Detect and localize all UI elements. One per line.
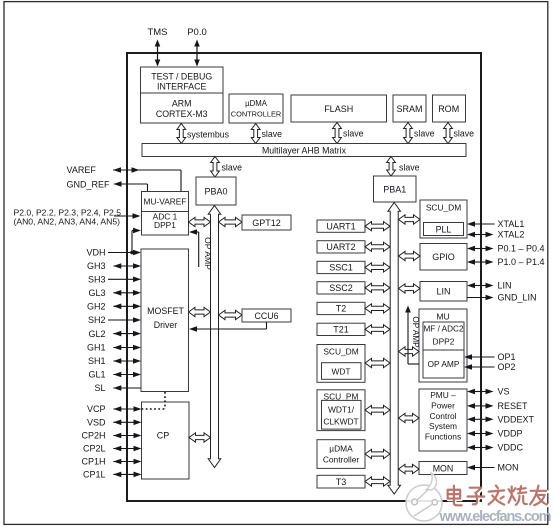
wire SH1 xyxy=(113,358,141,364)
svg-text:systembus: systembus xyxy=(187,130,230,140)
svg-text:WDT: WDT xyxy=(331,366,350,376)
wire VSD xyxy=(113,420,141,426)
svg-text:PLL: PLL xyxy=(436,224,452,234)
svg-text:Control: Control xyxy=(430,411,457,421)
svg-text:FLASH: FLASH xyxy=(324,104,353,114)
wire GH1 xyxy=(113,345,141,351)
block LIN xyxy=(420,282,467,302)
svg-text:ROM: ROM xyxy=(438,104,459,114)
block FLASH xyxy=(291,95,387,122)
svg-text:Driver: Driver xyxy=(154,320,178,330)
block T3 xyxy=(317,475,365,488)
bus systembus arrow xyxy=(177,124,230,144)
wire XTAL2 xyxy=(467,232,494,238)
bus PBA1 slave arrow xyxy=(387,157,420,177)
block SRAM xyxy=(393,95,426,122)
bus right peripheral bus xyxy=(388,203,401,495)
svg-text:SCU_DM: SCU_DM xyxy=(323,347,358,357)
svg-text:SH1: SH1 xyxy=(88,356,106,366)
svg-text:SL: SL xyxy=(94,383,105,393)
svg-text:GH3: GH3 xyxy=(87,261,106,271)
bus left peripheral bus xyxy=(208,206,221,468)
wire P0.0 arrow xyxy=(194,40,200,67)
svg-text:TMS: TMS xyxy=(147,27,167,38)
svg-text:MU-VAREF: MU-VAREF xyxy=(144,197,187,207)
svg-text:CP1L: CP1L xyxy=(83,470,106,480)
svg-text:GPIO: GPIO xyxy=(432,252,455,262)
bus right bus to MON xyxy=(399,464,420,473)
svg-text:CP2L: CP2L xyxy=(83,444,106,454)
wire CP2H xyxy=(113,433,141,439)
svg-text:Controller: Controller xyxy=(323,455,360,465)
wire RESET xyxy=(467,403,494,409)
wire GL3 xyxy=(113,290,141,296)
svg-text:WDT1/: WDT1/ xyxy=(328,404,355,414)
svg-text:Power: Power xyxy=(431,401,455,411)
bus T2 to right bus xyxy=(365,304,390,313)
svg-text:LIN: LIN xyxy=(498,281,512,291)
block TEST / DEBUG INTERFACE xyxy=(141,67,224,93)
block MU MF ADC2 DPP2 OP AMP xyxy=(419,309,467,382)
svg-text:µDMA: µDMA xyxy=(329,444,353,454)
svg-text:P0.1 – P0.4: P0.1 – P0.4 xyxy=(498,244,545,254)
wire GL1 xyxy=(113,372,141,378)
svg-text:CP2H: CP2H xyxy=(81,431,105,441)
wire SH3 xyxy=(108,277,141,283)
block SCU_DM PLL xyxy=(420,200,467,238)
svg-text:XTAL2: XTAL2 xyxy=(498,230,525,240)
bus SSC1 to right bus xyxy=(365,263,390,272)
svg-text:MF / ADC2: MF / ADC2 xyxy=(423,325,463,334)
block T2 xyxy=(317,302,365,314)
bus SSC2 to right bus xyxy=(365,283,390,292)
bus left bus to GPT12 xyxy=(219,217,243,226)
block CCU6 xyxy=(242,309,291,322)
wire VDH xyxy=(108,250,141,256)
svg-text:T3: T3 xyxy=(336,477,347,487)
svg-text:www.elecfans.com: www.elecfans.com xyxy=(439,509,552,525)
svg-text:VS: VS xyxy=(498,387,510,397)
svg-text:OP2: OP2 xyxy=(498,362,516,372)
wire VDDP xyxy=(467,431,494,437)
bus left bus to CCU6 xyxy=(219,310,243,319)
svg-text:VDDP: VDDP xyxy=(498,429,523,439)
bus right bus to LIN xyxy=(399,284,421,293)
bus right bus to PMU xyxy=(399,413,420,422)
svg-text:GND_REF: GND_REF xyxy=(67,180,111,190)
svg-text:VDDC: VDDC xyxy=(498,443,524,453)
wire GL2 xyxy=(113,331,141,337)
wire GH3 xyxy=(113,263,141,269)
block GPT12 xyxy=(242,215,291,230)
svg-text:SCU_DM: SCU_DM xyxy=(426,203,461,213)
wire OP AMP stub at ADC 1 xyxy=(189,229,199,267)
svg-text:MON: MON xyxy=(433,463,454,473)
block PBA0 xyxy=(196,177,236,205)
wire LIN xyxy=(467,283,494,289)
svg-text:T21: T21 xyxy=(333,325,349,335)
block UART1 xyxy=(317,220,365,232)
bus right bus to SCU_DM PLL xyxy=(399,215,421,224)
wire VDH junction to ADC 1 xyxy=(130,228,141,255)
wire P1.0-P1.4 xyxy=(467,259,494,265)
svg-text:CORTEX-M3: CORTEX-M3 xyxy=(156,109,208,119)
block SSC2 xyxy=(317,282,365,294)
svg-text:ARM: ARM xyxy=(172,99,192,109)
svg-text:GH1: GH1 xyxy=(87,343,106,353)
wire TMS arrow xyxy=(155,40,161,67)
svg-text:GL2: GL2 xyxy=(88,329,105,339)
block ADC 1 DPP1 xyxy=(142,212,189,236)
wire OP1 xyxy=(464,354,495,360)
wire VCP xyxy=(113,406,141,412)
svg-text:PBA0: PBA0 xyxy=(204,187,227,197)
svg-text:Functions: Functions xyxy=(425,432,461,442)
svg-text:CONTROLLER: CONTROLLER xyxy=(231,110,282,119)
wire GND_REF xyxy=(114,181,148,191)
svg-text:UART2: UART2 xyxy=(326,242,355,252)
wire CCU6 to MOSFET Driver xyxy=(189,322,267,332)
svg-text:slave: slave xyxy=(399,163,420,173)
block MOSFET Driver xyxy=(141,249,189,392)
wire VS xyxy=(467,389,494,395)
block T21 xyxy=(317,323,365,335)
wire CP2L xyxy=(113,446,141,452)
bus SCU_PM to right bus xyxy=(365,405,390,414)
svg-text:CP1H: CP1H xyxy=(81,457,105,467)
svg-text:SRAM: SRAM xyxy=(396,104,422,114)
svg-text:Multilayer AHB Matrix: Multilayer AHB Matrix xyxy=(262,145,347,155)
block ARM CORTEX-M3 xyxy=(141,93,224,123)
svg-text:SH2: SH2 xyxy=(88,315,106,325)
bus T21 to right bus xyxy=(365,325,390,334)
svg-text:(AN0, AN2, AN3, AN4, AN5): (AN0, AN2, AN3, AN4, AN5) xyxy=(14,217,121,227)
bus UART1 to right bus xyxy=(365,222,390,231)
block MON xyxy=(419,462,467,475)
svg-text:OP AMP: OP AMP xyxy=(428,359,460,369)
svg-text:GL1: GL1 xyxy=(88,370,105,380)
svg-text:XTAL1: XTAL1 xyxy=(498,219,525,229)
svg-text:DPP2: DPP2 xyxy=(433,337,455,347)
svg-text:PBA1: PBA1 xyxy=(383,185,406,195)
svg-text:OP AMP: OP AMP xyxy=(203,237,213,270)
bus ROM slave arrow xyxy=(444,123,475,144)
svg-text:OP1: OP1 xyxy=(498,352,516,362)
svg-text:GL3: GL3 xyxy=(88,288,105,298)
svg-text:slave: slave xyxy=(454,129,475,139)
wire SL xyxy=(113,385,141,391)
wire MU OP AMP up arrow xyxy=(405,306,419,365)
svg-text:TEST / DEBUG: TEST / DEBUG xyxy=(151,72,212,82)
block Multilayer AHB Matrix xyxy=(142,144,466,157)
svg-text:CCU6: CCU6 xyxy=(255,311,279,321)
svg-text:P1.0 – P1.4: P1.0 – P1.4 xyxy=(498,257,545,267)
main chip box xyxy=(127,53,481,501)
svg-text:SSC2: SSC2 xyxy=(329,283,353,293)
svg-text:OP AMP: OP AMP xyxy=(411,316,420,348)
bus uDMA Controller to right bus xyxy=(365,449,390,458)
wire P0.1-P0.4 xyxy=(467,246,494,252)
svg-text:MOSFET: MOSFET xyxy=(147,306,184,316)
block SCU_PM WDT1 CLKWDT xyxy=(317,390,365,431)
block MU-VAREF xyxy=(142,192,189,212)
block uDMA Controller xyxy=(317,440,365,469)
svg-text:GND_LIN: GND_LIN xyxy=(498,293,537,303)
svg-text:MON: MON xyxy=(498,463,519,473)
block SCU_DM WDT xyxy=(317,345,365,383)
watermark logo circle xyxy=(406,473,442,521)
block SSC1 xyxy=(317,261,365,273)
block GPIO xyxy=(420,244,467,271)
block UART2 xyxy=(317,241,365,253)
wire SH2 xyxy=(108,317,141,323)
wire VAREF xyxy=(113,167,181,191)
bus CP to left bus xyxy=(189,433,211,442)
bus SCU_DM WDT to right bus xyxy=(365,358,390,367)
wire VDDEXT xyxy=(467,417,494,423)
svg-text:INTERFACE: INTERFACE xyxy=(157,82,206,92)
svg-text:slave: slave xyxy=(222,163,243,173)
wire VDDC xyxy=(467,445,494,451)
wire dotted VCP link xyxy=(142,392,166,409)
svg-text:slave: slave xyxy=(262,129,283,139)
svg-text:GH2: GH2 xyxy=(87,302,106,312)
svg-text:PMU –: PMU – xyxy=(430,390,456,400)
svg-text:CLKWDT: CLKWDT xyxy=(323,416,358,426)
wire OP2 xyxy=(464,364,495,370)
block CP xyxy=(142,402,190,479)
wire CP1H xyxy=(113,459,141,465)
bus FLASH slave arrow xyxy=(333,123,364,144)
svg-text:UART1: UART1 xyxy=(326,221,355,231)
svg-text:DPP1: DPP1 xyxy=(154,220,176,230)
bus right bus to MU xyxy=(399,347,420,356)
block uDMA CONTROLLER xyxy=(229,94,283,123)
svg-text:LIN: LIN xyxy=(436,287,450,297)
svg-text:VDH: VDH xyxy=(86,248,105,258)
block PMU Power Control System Functions xyxy=(419,389,467,451)
bus MOSFET Driver to left bus xyxy=(189,307,211,316)
svg-text:RESET: RESET xyxy=(498,401,529,411)
block PBA1 xyxy=(374,176,417,202)
block ROM xyxy=(433,95,466,122)
svg-text:VAREF: VAREF xyxy=(67,165,97,175)
svg-text:slave: slave xyxy=(343,129,364,139)
svg-text:CP: CP xyxy=(157,431,170,441)
svg-text:VDDEXT: VDDEXT xyxy=(498,415,535,425)
svg-text:VCP: VCP xyxy=(87,404,106,414)
svg-text:P0.0: P0.0 xyxy=(187,27,207,38)
bus PBA0 slave arrow xyxy=(211,157,243,178)
svg-text:System: System xyxy=(429,421,457,431)
svg-text:µDMA: µDMA xyxy=(245,99,268,108)
bus uDMA slave arrow xyxy=(251,124,282,144)
wire GH2 xyxy=(113,304,141,310)
bus T3 to right bus xyxy=(365,477,390,486)
wire CP1L xyxy=(113,472,141,478)
svg-text:SSC1: SSC1 xyxy=(329,263,353,273)
watermark text dianzifashaoyou xyxy=(448,486,548,507)
svg-text:slave: slave xyxy=(414,129,435,139)
svg-text:VSD: VSD xyxy=(87,418,106,428)
wire XTAL1 xyxy=(467,221,495,227)
watermark text www.elecfans.com xyxy=(439,509,552,525)
bus UART2 to right bus xyxy=(365,242,390,251)
wire MON xyxy=(467,465,495,471)
bus SRAM slave arrow xyxy=(404,123,435,144)
wire GND_LIN xyxy=(467,295,494,301)
bus ADC 1 to left bus xyxy=(189,217,211,226)
svg-text:SH3: SH3 xyxy=(88,275,106,285)
wire P2.x to ADC 1 xyxy=(114,213,141,219)
svg-text:T2: T2 xyxy=(336,304,347,314)
svg-text:GPT12: GPT12 xyxy=(252,218,281,228)
svg-text:MU: MU xyxy=(436,311,449,321)
bus right bus to GPIO xyxy=(399,251,421,260)
